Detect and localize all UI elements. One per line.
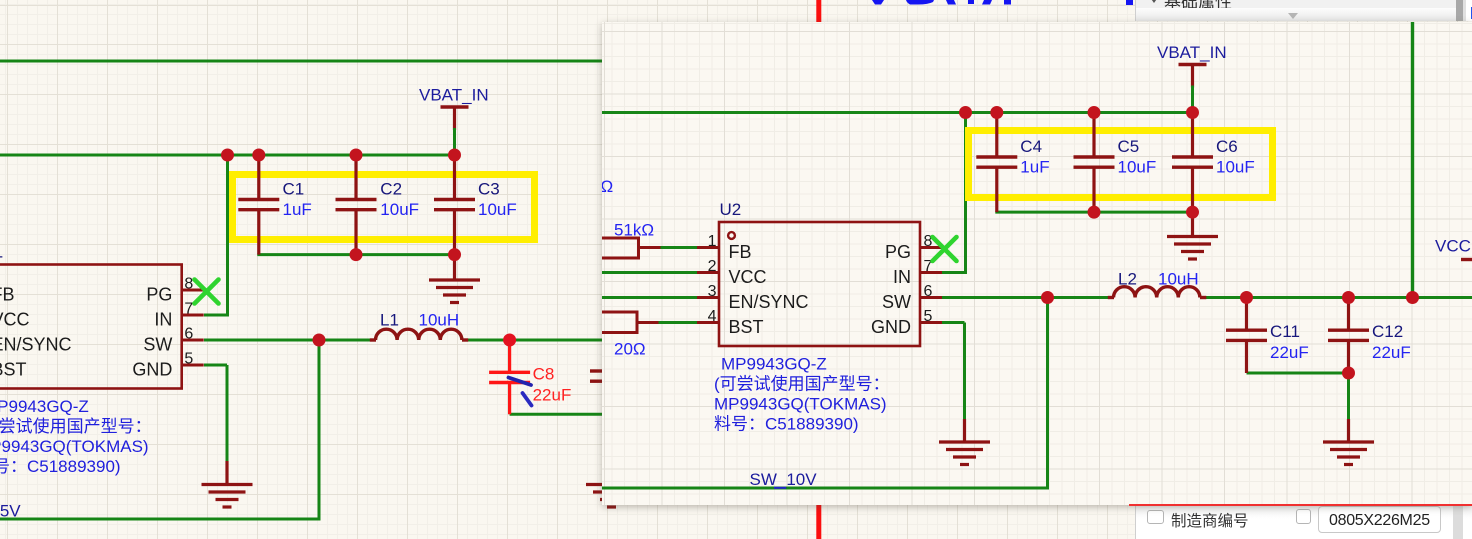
ground below C6 bbox=[1191, 212, 1194, 236]
junction dots background bbox=[221, 149, 234, 162]
resistor 51k (cut by edge) bbox=[596, 238, 639, 258]
U2 pin 1 FB bbox=[697, 246, 719, 249]
junction dots popup bbox=[959, 106, 972, 119]
ground fragment near popup edge bbox=[586, 483, 637, 486]
svg-text:1: 1 bbox=[708, 233, 717, 250]
wire : SW_10V branch bbox=[1046, 298, 1049, 489]
U1 pin 7 IN bbox=[182, 314, 204, 317]
svg-text:IN: IN bbox=[154, 310, 172, 330]
wire : VBAT_IN bus (popup) bbox=[602, 111, 1193, 114]
U2 pin 5 GND bbox=[920, 321, 942, 324]
junction dot C8 (selected) bbox=[503, 334, 516, 347]
U1 pin 5 GND bbox=[182, 364, 204, 367]
svg-text:C2: C2 bbox=[380, 179, 402, 198]
svg-text:VCC: VCC bbox=[1435, 237, 1471, 256]
wire : VBAT_IN bus bbox=[0, 154, 455, 157]
capacitor C3 bbox=[453, 155, 456, 200]
U2 pin 2 VCC bbox=[697, 271, 719, 274]
op IC U1 (MP9943GQ-Z) bbox=[0, 265, 182, 389]
capacitor C11 bbox=[1245, 298, 1248, 331]
svg-text:SW_5V: SW_5V bbox=[0, 502, 21, 521]
svg-text:料号：C51889390): 料号：C51889390) bbox=[714, 414, 859, 433]
capacitor C2 bbox=[354, 155, 357, 200]
U2 pin 8 PG bbox=[920, 246, 942, 249]
wire : GND pin leg (popup) bbox=[942, 321, 965, 324]
svg-text:7: 7 bbox=[184, 301, 193, 318]
wire : IN pin riser (popup) bbox=[942, 271, 966, 274]
svg-text:22uF: 22uF bbox=[1372, 343, 1411, 362]
svg-text:FB: FB bbox=[0, 285, 15, 305]
popup schematic preview window bbox=[602, 22, 1472, 505]
scrollbar bbox=[1456, 0, 1463, 21]
ground below U1 GND bbox=[225, 461, 228, 485]
section header 基础属性 (clipped) bbox=[1164, 0, 1232, 13]
wire : top horizontal net bbox=[0, 60, 603, 63]
wire : 20R resistor to pin4 bbox=[659, 321, 698, 324]
ground below C3 bbox=[453, 255, 456, 280]
ground below C11 C12 bbox=[1347, 419, 1350, 442]
svg-text:C6: C6 bbox=[1216, 137, 1238, 156]
U2 pin 7 IN bbox=[920, 271, 942, 274]
right properties panel top strip bbox=[1135, 0, 1472, 21]
svg-text:C11: C11 bbox=[1270, 322, 1300, 341]
wire : C4-C6 bottom bus bbox=[995, 211, 1194, 214]
svg-text:51kΩ: 51kΩ bbox=[614, 221, 654, 240]
svg-text:L1: L1 bbox=[380, 310, 399, 329]
svg-text:Ω: Ω bbox=[602, 177, 613, 196]
U2 pin 6 SW bbox=[920, 296, 942, 299]
svg-text:L2: L2 bbox=[1118, 269, 1137, 288]
svg-text:(可尝试使用国产型号：: (可尝试使用国产型号： bbox=[714, 374, 890, 394]
svg-text:FB: FB bbox=[729, 242, 752, 262]
capacitor C5 bbox=[1092, 113, 1095, 158]
svg-text:PG: PG bbox=[146, 285, 172, 305]
svg-text:10uF: 10uF bbox=[380, 200, 419, 219]
capacitor C6 bbox=[1191, 113, 1194, 158]
no-connect X on U2 PG bbox=[933, 237, 957, 261]
svg-text:MP9943GQ-Z: MP9943GQ-Z bbox=[0, 397, 89, 416]
svg-text:2: 2 bbox=[708, 258, 717, 275]
svg-text:BST: BST bbox=[0, 360, 27, 380]
svg-text:BST: BST bbox=[729, 317, 764, 337]
svg-text:IN: IN bbox=[893, 267, 911, 287]
svg-text:C4: C4 bbox=[1020, 137, 1042, 156]
svg-text:MP9943GQ-Z: MP9943GQ-Z bbox=[721, 355, 827, 374]
checkbox 2 bbox=[1296, 509, 1312, 524]
power flag VBAT_IN bbox=[441, 105, 469, 109]
wire : U2 pin3 to edge bbox=[602, 296, 697, 299]
svg-text:C8: C8 bbox=[533, 365, 555, 384]
svg-text:U1: U1 bbox=[0, 243, 3, 262]
power flag VBAT_IN (popup) bbox=[1179, 63, 1207, 67]
svg-text:VBAT_IN: VBAT_IN bbox=[1157, 43, 1227, 62]
svg-text:(可尝试使用国产型号：: (可尝试使用国产型号： bbox=[0, 416, 152, 436]
svg-text:C5: C5 bbox=[1118, 137, 1140, 156]
inductor L2 10uH bbox=[1108, 296, 1114, 299]
svg-text:C1: C1 bbox=[283, 179, 305, 198]
wire : C11 C12 bottom net bbox=[1247, 372, 1351, 375]
svg-text:10uH: 10uH bbox=[419, 310, 460, 329]
wire : 51k resistor to pin1 bbox=[661, 246, 698, 249]
svg-text:VCC: VCC bbox=[0, 310, 30, 330]
svg-text:SW: SW bbox=[143, 335, 172, 355]
svg-text:C12: C12 bbox=[1372, 322, 1403, 341]
U2 pin 4 BST bbox=[697, 321, 719, 324]
checkbox 制造商编号 bbox=[1147, 510, 1164, 525]
capacitor C12 bbox=[1347, 298, 1350, 331]
svg-text:22uF: 22uF bbox=[1270, 343, 1309, 362]
yellow highlight rect C4-C6 bbox=[969, 131, 1273, 198]
wire : C1-C3 bottom bus bbox=[257, 253, 456, 256]
U2 pin 3 EN/SYNC bbox=[697, 296, 719, 299]
ground below U2 GND bbox=[963, 419, 966, 442]
svg-text:VCC: VCC bbox=[729, 267, 767, 287]
resistor 20R (cut by edge) bbox=[596, 312, 637, 333]
red section divider line bbox=[816, 0, 821, 539]
svg-text:1uF: 1uF bbox=[1020, 157, 1049, 176]
inductor L1 10uH bbox=[370, 338, 376, 341]
wire : C8 bottom net bbox=[510, 413, 603, 416]
svg-text:SW: SW bbox=[882, 292, 911, 312]
svg-text:料号：C51889390): 料号：C51889390) bbox=[0, 457, 121, 476]
wire : SW net to L1 bbox=[204, 339, 370, 342]
hidden cap plate fragment near popup edge bbox=[590, 369, 603, 372]
svg-text:20Ω: 20Ω bbox=[614, 340, 646, 359]
svg-text:3: 3 bbox=[708, 283, 717, 300]
svg-text:PG: PG bbox=[885, 242, 911, 262]
svg-text:SW_10V: SW_10V bbox=[750, 470, 818, 489]
svg-text:GND: GND bbox=[132, 360, 172, 380]
right properties panel bottom strip bbox=[1135, 505, 1472, 539]
svg-text:MP9943GQ(TOKMAS): MP9943GQ(TOKMAS) bbox=[0, 437, 149, 456]
selection marks on C8 bbox=[509, 378, 532, 386]
wire : SW net to L2 bbox=[942, 296, 1112, 299]
wire : U2 pin2 to edge bbox=[602, 271, 697, 274]
svg-text:6: 6 bbox=[184, 326, 193, 343]
svg-text:EN/SYNC: EN/SYNC bbox=[0, 335, 72, 355]
input 0805X226M25 bbox=[1318, 506, 1441, 533]
svg-text:10uF: 10uF bbox=[478, 200, 517, 219]
capacitor C4 bbox=[995, 113, 998, 158]
U1 pin 8 PG bbox=[182, 289, 204, 292]
svg-text:8: 8 bbox=[184, 276, 193, 293]
collapse triangle bbox=[1288, 13, 1298, 19]
svg-text:22uF: 22uF bbox=[533, 385, 572, 404]
svg-text:10uF: 10uF bbox=[1118, 157, 1157, 176]
U1 pin 6 SW bbox=[182, 339, 204, 342]
wire : VCC riser bbox=[1411, 22, 1414, 298]
capacitor C8 (selected) bbox=[508, 341, 511, 372]
svg-text:GND: GND bbox=[871, 317, 911, 337]
svg-text:C3: C3 bbox=[478, 179, 500, 198]
svg-text:U2: U2 bbox=[720, 200, 742, 219]
op IC U2 (MP9943GQ-Z) bbox=[719, 222, 920, 346]
svg-text:10uH: 10uH bbox=[1158, 269, 1199, 288]
no-connect X on U1 PG bbox=[195, 280, 219, 304]
svg-text:10uF: 10uF bbox=[1216, 157, 1255, 176]
wire : L2 to C11 C12 VCC bbox=[1206, 296, 1472, 299]
wire : IN pin riser bbox=[204, 314, 228, 317]
svg-text:MP9943GQ(TOKMAS): MP9943GQ(TOKMAS) bbox=[714, 395, 887, 414]
svg-text:EN/SYNC: EN/SYNC bbox=[729, 292, 809, 312]
big VBAT_IN net text fragments (cut at top) bbox=[872, 0, 884, 5]
svg-text:5: 5 bbox=[184, 351, 193, 368]
capacitor C1 bbox=[257, 155, 260, 200]
svg-text:4: 4 bbox=[708, 308, 717, 325]
wire : GND pin leg bbox=[204, 364, 227, 367]
yellow highlight rect C1-C3 bbox=[233, 175, 535, 240]
svg-text:6: 6 bbox=[924, 283, 933, 300]
svg-text:VBAT_IN: VBAT_IN bbox=[419, 86, 489, 105]
svg-text:1uF: 1uF bbox=[283, 200, 312, 219]
svg-text:5: 5 bbox=[924, 308, 933, 325]
wire : L1 to C8 and beyond bbox=[468, 339, 603, 342]
red divider line bbox=[1129, 504, 1472, 506]
wire : SW_5V branch bbox=[318, 340, 321, 519]
